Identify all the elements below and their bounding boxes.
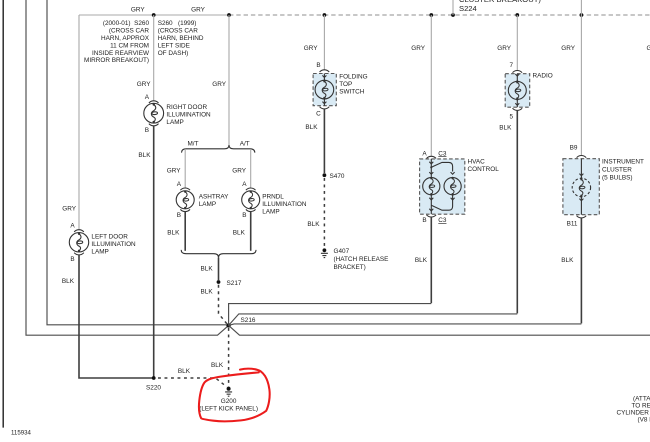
- svg-text:RIGHT DOOR: RIGHT DOOR: [166, 104, 207, 111]
- wire GRY folding top switch drop: [323, 15, 325, 70]
- svg-text:BLK: BLK: [561, 257, 574, 264]
- svg-text:(V8 ENGINE): (V8 ENGINE): [638, 417, 650, 424]
- svg-text:BLK: BLK: [138, 152, 151, 159]
- svg-text:GRY: GRY: [212, 81, 226, 88]
- svg-text:A: A: [145, 94, 150, 101]
- wire BLK radio to S216: [516, 110, 518, 313]
- frame line 3 (wire to S216 from left): [47, 0, 229, 325]
- wire BLK dashed S217 to S216: [219, 285, 228, 324]
- svg-text:GRY: GRY: [561, 45, 575, 52]
- ground G200: [225, 387, 232, 396]
- svg-text:FOLDING: FOLDING: [339, 74, 367, 81]
- svg-text:CONTROL: CONTROL: [468, 166, 500, 173]
- svg-text:LEFT SIDE: LEFT SIDE: [158, 42, 190, 49]
- svg-text:A/T: A/T: [240, 140, 250, 147]
- wire GRY HVAC drop: [430, 15, 432, 156]
- svg-text:BLK: BLK: [499, 125, 512, 132]
- note S260 1999: [158, 20, 204, 57]
- svg-text:S470: S470: [330, 173, 345, 180]
- svg-text:GRY: GRY: [62, 206, 76, 213]
- connector arc HVAC lower: [427, 215, 437, 217]
- svg-text:C3: C3: [438, 150, 447, 157]
- svg-text:GRY: GRY: [497, 45, 511, 52]
- lamp ashtray: [176, 191, 194, 209]
- connector arc instrument cluster lower: [577, 216, 587, 218]
- label LEFT DOOR ILLUMINATION LAMP: [91, 234, 136, 256]
- wire BLK merged to S217: [218, 258, 220, 280]
- brace split M/T A/T: [182, 145, 255, 153]
- node dot feeder wire: [227, 13, 231, 17]
- top GRY bus solid segment: [79, 14, 229, 16]
- note bottom right clipped: [617, 395, 650, 423]
- wire BLK HVAC to S216: [430, 217, 432, 303]
- ground G407: [321, 248, 328, 257]
- svg-text:INSTRUMENT: INSTRUMENT: [602, 158, 644, 165]
- splice S217: [217, 280, 221, 284]
- splice S216: [226, 323, 230, 327]
- svg-text:G200: G200: [221, 398, 237, 405]
- svg-text:7: 7: [509, 62, 513, 69]
- node dot HVAC wire: [429, 13, 433, 17]
- wire GRY left door lamp drop: [78, 15, 80, 230]
- svg-text:BLK: BLK: [178, 368, 191, 375]
- svg-text:GRY: GRY: [411, 45, 425, 52]
- wire BLK PRNDL to merge: [250, 212, 252, 251]
- svg-text:B: B: [177, 212, 181, 219]
- svg-text:(CROSS CAR: (CROSS CAR: [109, 27, 150, 34]
- wire BLK right door to S220: [153, 126, 155, 378]
- svg-text:GRY: GRY: [304, 45, 318, 52]
- frame border line left: [2, 0, 4, 428]
- svg-text:BLK: BLK: [307, 221, 320, 228]
- svg-text:B: B: [242, 212, 246, 219]
- folding top switch internals: [315, 74, 334, 106]
- connector arc radio upper: [513, 71, 523, 73]
- connector arc HVAC upper: [427, 156, 437, 158]
- svg-text:CYLINDER HEAD: CYLINDER HEAD: [617, 410, 650, 417]
- splice S220: [152, 376, 156, 380]
- svg-text:BLK: BLK: [415, 257, 428, 264]
- svg-text:S217: S217: [227, 280, 242, 287]
- wire riser S224: [452, 0, 454, 15]
- svg-text:ILLUMINATION: ILLUMINATION: [262, 201, 307, 208]
- svg-text:G407: G407: [334, 248, 350, 255]
- svg-text:BLK: BLK: [201, 288, 214, 295]
- connector arc folding top lower: [320, 107, 330, 109]
- svg-text:M/T: M/T: [187, 140, 198, 147]
- svg-text:CLUSTER: CLUSTER: [602, 166, 632, 173]
- svg-text:BLK: BLK: [211, 362, 224, 369]
- svg-text:S224: S224: [459, 4, 477, 13]
- wire GRY instrument cluster riser and drop: [580, 0, 582, 156]
- node dot radio wire: [515, 13, 519, 17]
- svg-text:B: B: [70, 256, 74, 263]
- svg-text:GRY: GRY: [131, 6, 145, 13]
- svg-text:RADIO: RADIO: [533, 73, 553, 80]
- radio internals: [508, 74, 526, 108]
- svg-text:LAMP: LAMP: [91, 249, 108, 256]
- svg-text:A: A: [242, 181, 247, 188]
- svg-text:C3: C3: [438, 217, 447, 224]
- instrument cluster box: [563, 159, 599, 215]
- svg-text:ILLUMINATION: ILLUMINATION: [91, 241, 136, 248]
- svg-text:TOP: TOP: [339, 81, 352, 88]
- svg-text:BLK: BLK: [233, 229, 246, 236]
- svg-text:LAMP: LAMP: [199, 201, 216, 208]
- svg-text:B11: B11: [567, 220, 578, 227]
- connector arc left door bottom: [74, 253, 84, 255]
- svg-text:ASHTRAY: ASHTRAY: [199, 194, 229, 201]
- svg-text:B: B: [316, 62, 320, 69]
- svg-text:S216: S216: [241, 317, 256, 324]
- frame line 2 (wire to S216 from left): [26, 0, 229, 335]
- top bus dashed segment: [229, 14, 650, 16]
- label ASHTRAY LAMP: [199, 194, 229, 209]
- label INSTRUMENT CLUSTER 5 BULBS: [602, 158, 644, 181]
- connector arc ashtray bottom: [180, 209, 190, 211]
- label PRNDL ILLUMINATION LAMP: [262, 194, 307, 216]
- svg-text:A: A: [70, 222, 75, 229]
- svg-text:SWITCH: SWITCH: [339, 89, 365, 96]
- instrument cluster internals: [572, 159, 590, 215]
- connector arc left door top: [74, 230, 84, 232]
- wire BLK dashed S216 to G200: [228, 328, 230, 387]
- svg-text:BLK: BLK: [201, 265, 214, 272]
- svg-text:OF DASH): OF DASH): [158, 50, 189, 57]
- svg-text:BLK: BLK: [305, 124, 318, 131]
- connector arc instrument cluster upper: [577, 156, 587, 158]
- svg-text:LEFT DOOR: LEFT DOOR: [91, 234, 128, 241]
- svg-text:HVAC: HVAC: [468, 159, 486, 166]
- wire BLK instrument cluster to S216: [580, 218, 582, 324]
- svg-text:C: C: [316, 110, 321, 117]
- lamp left door illumination: [69, 233, 88, 252]
- lamp right door illumination: [144, 103, 164, 123]
- node dot folding top wire: [323, 13, 327, 17]
- svg-text:B: B: [422, 217, 426, 224]
- label HVAC CONTROL: [468, 159, 500, 174]
- wire GRY ashtray branch: [184, 149, 186, 188]
- svg-text:(5 BULBS): (5 BULBS): [602, 174, 633, 181]
- svg-text:MIRROR BREAKOUT): MIRROR BREAKOUT): [84, 57, 149, 64]
- brace merge ashtray PRNDL: [181, 250, 256, 258]
- svg-text:B9: B9: [570, 144, 578, 151]
- connector arc right door top: [149, 101, 159, 103]
- wire GRY PRNDL branch: [250, 149, 252, 188]
- wire BLK left door to S220: [79, 255, 154, 378]
- svg-text:11 CM FROM: 11 CM FROM: [110, 42, 149, 49]
- wire GRY right door lamp drop: [153, 15, 155, 101]
- svg-text:PRNDL: PRNDL: [262, 194, 284, 201]
- HVAC internals two bulbs: [423, 159, 462, 214]
- svg-text:LAMP: LAMP: [166, 119, 183, 126]
- svg-text:A: A: [177, 181, 182, 188]
- svg-text:TO REAR: TO REAR: [632, 402, 650, 409]
- radio box: [505, 74, 530, 108]
- svg-text:BLK: BLK: [167, 229, 180, 236]
- connector arc right door bottom: [149, 124, 159, 126]
- svg-text:HARN, APPROX: HARN, APPROX: [101, 35, 150, 42]
- node dot instrument cluster wire: [580, 13, 584, 17]
- svg-text:A: A: [422, 150, 427, 157]
- connector arc PRNDL top: [246, 188, 256, 190]
- svg-text:(LEFT KICK PANEL): (LEFT KICK PANEL): [199, 405, 258, 412]
- svg-text:BLK: BLK: [62, 278, 75, 285]
- svg-text:115934: 115934: [11, 430, 31, 437]
- svg-text:GRY: GRY: [137, 81, 151, 88]
- svg-text:HARN, BEHIND: HARN, BEHIND: [158, 35, 204, 42]
- folding top switch box: [313, 74, 336, 106]
- wire BLK dashed S220 to G200: [158, 378, 227, 387]
- connector arc PRNDL bottom: [246, 209, 256, 211]
- svg-text:B: B: [145, 127, 149, 134]
- splice S470: [323, 173, 327, 177]
- node dot right door wire: [152, 13, 156, 17]
- note S260 2000-01: [84, 20, 150, 64]
- svg-text:(2000-01) S260: (2000-01) S260: [103, 20, 150, 27]
- label HATCH RELEASE BRACKET: [334, 256, 389, 271]
- svg-text:INSIDE REARVIEW: INSIDE REARVIEW: [92, 50, 150, 57]
- wire BLK folding top to S470: [323, 109, 325, 173]
- wire BLK dashed S470 to G407: [323, 178, 325, 247]
- splice S224 label: [459, 0, 541, 13]
- svg-text:BRACKET): BRACKET): [334, 264, 366, 271]
- wire trunk S216 to right edge: [229, 325, 650, 335]
- svg-text:GRY: GRY: [232, 167, 246, 174]
- lamp PRNDL illumination: [242, 191, 260, 209]
- label RIGHT DOOR ILLUMINATION LAMP: [166, 104, 211, 126]
- svg-text:S220: S220: [146, 384, 161, 391]
- wire GRY radio drop: [516, 15, 518, 71]
- svg-text:5: 5: [509, 113, 513, 120]
- svg-text:GRY: GRY: [167, 167, 181, 174]
- connector arc folding top upper: [320, 70, 330, 72]
- svg-text:GRY: GRY: [191, 6, 205, 13]
- node dot S224 riser: [451, 13, 455, 17]
- label FOLDING TOP SWITCH: [339, 74, 367, 96]
- svg-text:(ATTACHED: (ATTACHED: [633, 395, 650, 402]
- red annotation circle around G200: [199, 369, 270, 422]
- svg-text:LAMP: LAMP: [262, 209, 279, 216]
- wire BLK ashtray to merge: [184, 212, 186, 251]
- svg-text:GRY: GRY: [647, 45, 650, 52]
- wire GRY feeder drop: [228, 15, 230, 145]
- connector arc ashtray top: [180, 188, 190, 190]
- connector arc radio lower: [513, 108, 523, 110]
- HVAC control box: [420, 159, 465, 214]
- svg-text:(CROSS CAR: (CROSS CAR: [158, 27, 199, 34]
- svg-text:ILLUMINATION: ILLUMINATION: [166, 112, 211, 119]
- svg-text:S260 (1999): S260 (1999): [158, 20, 197, 27]
- svg-text:(HATCH RELEASE: (HATCH RELEASE: [334, 256, 389, 263]
